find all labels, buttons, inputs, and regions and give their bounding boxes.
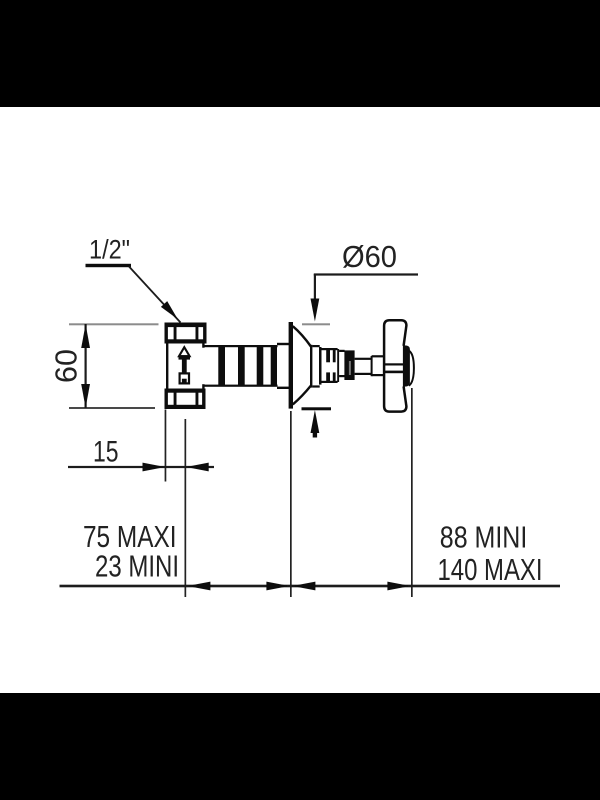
60 dim bottom extension line	[69, 407, 155, 409]
extension line from handle end	[411, 388, 413, 597]
flow direction symbol	[179, 347, 190, 356]
index button arc	[409, 351, 414, 386]
svg-text:Ø60: Ø60	[342, 240, 397, 274]
white band bottom edge	[339, 375, 345, 377]
knurl right edge	[337, 349, 339, 382]
60 dim top extension line	[69, 323, 159, 325]
Ø60 vertical drop	[314, 274, 316, 301]
svg-text:60: 60	[50, 349, 84, 383]
svg-text:1/2": 1/2"	[89, 235, 130, 265]
top hex nut	[165, 323, 207, 344]
60 dim arrow down	[81, 384, 90, 408]
60 dim vertical line	[85, 324, 87, 408]
bell front band top edge	[312, 345, 319, 347]
extension line from fitting left edge	[165, 410, 167, 482]
handle hub line upper	[384, 363, 403, 365]
15 dim line	[68, 466, 214, 468]
bell front band bottom edge	[312, 385, 319, 387]
bottom hex nut	[165, 389, 206, 410]
svg-text:15: 15	[93, 436, 119, 469]
bottom letterbox bar	[0, 693, 600, 800]
knurl groove	[322, 362, 337, 372]
leader line from 1/2" to top nut	[129, 267, 181, 323]
white band top edge	[339, 350, 345, 352]
15 dim arrow right	[143, 463, 166, 472]
packing nut (black)	[344, 350, 354, 380]
collar bottom edge	[372, 374, 384, 376]
bell neck line	[310, 345, 312, 388]
packing nut slit	[349, 361, 351, 375]
75 dim arrow right	[266, 582, 289, 591]
extension line from wall plate	[290, 411, 292, 597]
Ø60 down arrow	[311, 299, 320, 322]
Ø60 up arrow stem	[313, 428, 317, 438]
rib 2	[238, 345, 245, 386]
extension line from fitting centre	[185, 419, 187, 597]
neck top edge	[205, 345, 278, 347]
top letterbox bar	[0, 0, 600, 107]
knurled ring top edge	[322, 348, 338, 350]
15 dim arrow left	[186, 463, 209, 472]
flange section top edge	[277, 343, 290, 345]
cross handle outline	[384, 320, 406, 411]
rib 3	[257, 345, 264, 386]
Ø60 bottom extension tick	[302, 407, 332, 410]
valve body	[166, 344, 205, 389]
handle hub line lower	[384, 371, 403, 374]
front ring line	[319, 347, 322, 385]
leader arrowhead	[161, 301, 178, 319]
Ø60 top extension tick	[302, 323, 330, 325]
rib 4	[271, 345, 277, 386]
underline of 1/2"	[86, 264, 132, 267]
88 dim arrow left	[292, 582, 315, 591]
neck bottom edge	[205, 385, 278, 387]
wall plate of bell escutcheon	[289, 322, 293, 409]
flange section bottom edge	[277, 387, 290, 389]
Ø60 shoulder line	[314, 273, 418, 275]
bottom dimension line	[60, 585, 561, 588]
bell top curve	[293, 326, 311, 346]
Ø60 up arrow	[311, 410, 320, 433]
svg-text:88 MINI: 88 MINI	[440, 520, 528, 555]
svg-text:23 MINI: 23 MINI	[95, 549, 179, 584]
knurl stripe 1	[326, 348, 330, 382]
collar left line	[371, 356, 373, 376]
bell bottom curve	[293, 386, 311, 405]
60 dim arrow up	[81, 324, 90, 348]
svg-text:140 MAXI: 140 MAXI	[438, 552, 543, 587]
knurl stripe 2	[333, 348, 336, 382]
stem bottom edge	[355, 373, 372, 375]
rib 1	[218, 345, 225, 386]
75 dim arrow left	[187, 582, 210, 591]
knurled ring bottom edge	[322, 381, 338, 383]
88 dim arrow right	[387, 582, 410, 591]
collar top edge	[372, 355, 384, 357]
stem top edge	[355, 358, 372, 360]
handle knob end (black)	[403, 345, 410, 386]
